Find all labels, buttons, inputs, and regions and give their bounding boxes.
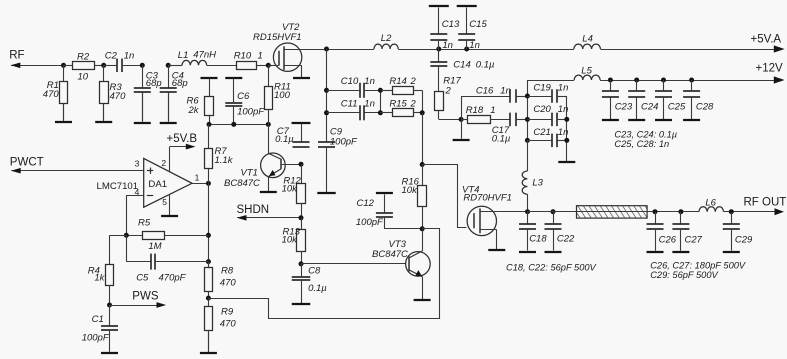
ground bbox=[655, 119, 672, 122]
label C3 bbox=[146, 71, 159, 82]
label C12 value bbox=[356, 217, 384, 228]
capacitor C23 bbox=[602, 80, 619, 119]
label R10 bbox=[234, 50, 252, 61]
label R13 bbox=[283, 226, 301, 237]
svg-text:100pF: 100pF bbox=[82, 333, 110, 344]
node SHDN node bbox=[299, 215, 304, 220]
capacitor C6 bbox=[225, 102, 242, 124]
svg-text:470: 470 bbox=[220, 319, 237, 330]
label pin 2 bbox=[161, 158, 166, 168]
label C19 value bbox=[558, 82, 569, 93]
label C3 value bbox=[146, 78, 162, 89]
label DA1 bbox=[148, 179, 167, 190]
svg-text:10: 10 bbox=[78, 72, 89, 83]
resistor R13 bbox=[297, 218, 306, 264]
capacitor C5 bbox=[126, 254, 208, 270]
label R17 bbox=[443, 75, 461, 86]
svg-text:C20: C20 bbox=[533, 104, 551, 115]
label C21 value bbox=[558, 127, 569, 138]
node VT3 collector node bbox=[420, 226, 425, 231]
svg-text:C25, C28: 1n: C25, C28: 1n bbox=[614, 139, 669, 149]
ground bbox=[453, 119, 470, 140]
label C27 bbox=[685, 235, 703, 246]
label C26 bbox=[659, 235, 677, 246]
wire C16 left bbox=[461, 96, 510, 119]
capacitor C13 bbox=[430, 34, 447, 49]
inductor L2 bbox=[374, 44, 398, 49]
svg-text:C21: C21 bbox=[533, 127, 550, 138]
svg-text:C16: C16 bbox=[476, 85, 494, 96]
label R9 value bbox=[220, 319, 237, 330]
svg-text:1n: 1n bbox=[469, 40, 480, 51]
svg-text:1: 1 bbox=[490, 105, 495, 116]
capacitor C28 bbox=[683, 80, 700, 119]
wire C10-C11 tie bbox=[380, 90, 382, 113]
svg-text:L1: L1 bbox=[178, 50, 189, 61]
label C20 bbox=[533, 104, 551, 115]
wire C12 to collector node bbox=[384, 228, 422, 230]
svg-text:L5: L5 bbox=[581, 66, 592, 77]
ground bbox=[317, 147, 335, 193]
label R15 bbox=[389, 98, 407, 109]
svg-text:R10: R10 bbox=[234, 50, 252, 61]
wire output column bbox=[208, 183, 210, 267]
label LMC7101 bbox=[97, 181, 139, 192]
svg-text:BC847C: BC847C bbox=[372, 249, 408, 260]
node C25 top node bbox=[661, 78, 666, 83]
node VT4 drain node bbox=[525, 209, 530, 214]
resistor R8 bbox=[205, 262, 213, 299]
label R2 value bbox=[78, 72, 89, 83]
svg-text:C6: C6 bbox=[237, 91, 250, 102]
wire R17 to node bbox=[439, 119, 461, 121]
svg-text:PWCT: PWCT bbox=[10, 157, 44, 169]
label C14 value bbox=[476, 60, 495, 71]
capacitor C27 bbox=[672, 212, 689, 229]
label R12 value bbox=[282, 184, 299, 195]
resistor R2 bbox=[64, 62, 104, 70]
label C12 bbox=[357, 198, 375, 209]
label VT1 bbox=[241, 168, 258, 179]
ground bbox=[293, 77, 310, 80]
svg-text:C22: C22 bbox=[557, 234, 575, 245]
node C29 node bbox=[729, 209, 734, 214]
svg-text:C28: C28 bbox=[696, 102, 714, 113]
label R11 bbox=[274, 81, 291, 92]
label VT2 bbox=[282, 22, 300, 33]
label C15 value bbox=[469, 40, 480, 51]
label C9 bbox=[330, 126, 343, 137]
capacitor C16 bbox=[510, 89, 527, 103]
svg-text:0.1µ: 0.1µ bbox=[275, 134, 294, 145]
resistor R7 bbox=[205, 124, 213, 183]
svg-text:1k: 1k bbox=[94, 273, 105, 284]
svg-text:2: 2 bbox=[161, 158, 166, 168]
svg-text:C13: C13 bbox=[442, 19, 460, 30]
wire bias line bbox=[209, 124, 268, 126]
svg-text:10k: 10k bbox=[402, 185, 419, 196]
capacitor C9 bbox=[318, 142, 335, 148]
node C10-R14 node bbox=[378, 88, 383, 93]
svg-text:RD15HVF1: RD15HVF1 bbox=[253, 32, 302, 43]
label C16 value bbox=[500, 85, 511, 96]
label +5V.B bbox=[167, 133, 198, 145]
label R8 value bbox=[220, 277, 237, 288]
label L4 bbox=[582, 33, 593, 44]
node C20 right node bbox=[564, 117, 569, 122]
label R2 bbox=[77, 51, 90, 62]
capacitor C7 bbox=[293, 142, 310, 147]
node C15 node bbox=[464, 47, 469, 52]
label R14 value bbox=[410, 76, 417, 87]
node R5 right node bbox=[206, 233, 211, 238]
label R16 value bbox=[402, 185, 419, 196]
wire RF input bbox=[11, 62, 73, 68]
label C8 value bbox=[308, 283, 327, 294]
node C22 node bbox=[551, 209, 556, 214]
svg-text:RF: RF bbox=[9, 50, 24, 62]
svg-text:C2: C2 bbox=[105, 51, 118, 62]
node RF-R1 junction bbox=[61, 63, 66, 68]
svg-text:R8: R8 bbox=[221, 265, 234, 276]
label VT2 part bbox=[253, 32, 302, 43]
svg-text:100pF: 100pF bbox=[237, 107, 265, 118]
wire C19 column right bbox=[566, 96, 568, 161]
wire +5V.B arrow bbox=[170, 144, 196, 150]
resistor R11 bbox=[265, 65, 273, 124]
label R12 bbox=[283, 175, 301, 186]
resistor R14 bbox=[380, 87, 422, 95]
label C22 bbox=[557, 234, 575, 245]
wire pin1 output bbox=[192, 183, 208, 185]
wire pin4 bbox=[127, 196, 144, 236]
label RF OUT bbox=[744, 196, 787, 208]
label R8 bbox=[221, 265, 234, 276]
resistor R5 bbox=[126, 232, 208, 240]
svg-text:1: 1 bbox=[195, 172, 200, 182]
ground bbox=[683, 119, 700, 122]
wire drain rail bbox=[302, 49, 375, 51]
inductor L1 bbox=[182, 60, 207, 65]
label VT4 part bbox=[463, 192, 512, 203]
label C13 bbox=[442, 19, 460, 30]
inductor L5 bbox=[574, 75, 600, 80]
ground bbox=[201, 78, 218, 96]
svg-text:1.1k: 1.1k bbox=[215, 155, 234, 166]
svg-text:+5V.A: +5V.A bbox=[751, 33, 782, 45]
label R4 value bbox=[94, 273, 105, 284]
label R11 value bbox=[274, 90, 291, 101]
node C26 node bbox=[653, 209, 658, 214]
transistor VT1 bbox=[261, 153, 301, 191]
capacitor C4 bbox=[160, 65, 177, 121]
label note C23 C24 bbox=[614, 129, 677, 139]
svg-text:100pF: 100pF bbox=[330, 136, 358, 147]
svg-text:C29: 56pF 500V: C29: 56pF 500V bbox=[650, 270, 718, 280]
wire pin5 stem bbox=[169, 195, 171, 216]
svg-text:DA1: DA1 bbox=[148, 179, 167, 190]
capacitor C21 bbox=[527, 134, 566, 148]
label PWS bbox=[132, 291, 159, 303]
inductor L3 bbox=[522, 171, 527, 194]
node C5 right node bbox=[206, 259, 211, 264]
label L3 bbox=[532, 178, 543, 189]
capacitor C1 bbox=[101, 305, 118, 331]
label R7 value bbox=[215, 155, 234, 166]
label R13 value bbox=[282, 235, 299, 246]
label R3 bbox=[110, 82, 123, 93]
wire PWCT bbox=[11, 168, 144, 174]
label R3 value bbox=[110, 91, 127, 102]
svg-text:10k: 10k bbox=[282, 235, 299, 246]
svg-text:C23: C23 bbox=[615, 102, 633, 113]
label pin 4 bbox=[135, 187, 140, 197]
resistor R17 bbox=[435, 67, 444, 120]
wire PWS arrow bbox=[110, 302, 167, 308]
label R18 value bbox=[490, 105, 495, 116]
ground bbox=[457, 6, 477, 34]
capacitor C15 bbox=[458, 34, 475, 49]
capacitor C3 bbox=[134, 65, 151, 121]
label C4 value bbox=[172, 78, 188, 89]
ground bbox=[628, 119, 645, 122]
label R10 value bbox=[258, 50, 263, 61]
svg-text:2: 2 bbox=[410, 98, 417, 109]
svg-text:C19: C19 bbox=[533, 82, 551, 93]
wire R14 bend bbox=[422, 90, 424, 113]
label R7 bbox=[215, 146, 228, 157]
label VT3 part bbox=[372, 249, 408, 260]
node C6 bias junction bbox=[231, 122, 236, 127]
label R4 bbox=[88, 265, 100, 276]
label C23 bbox=[615, 102, 633, 113]
resistor R18 bbox=[461, 116, 510, 124]
svg-text:C5: C5 bbox=[136, 273, 149, 284]
label C28 bbox=[696, 102, 714, 113]
resistor R15 bbox=[380, 109, 422, 117]
wire VT3 base bbox=[301, 263, 406, 265]
label C14 bbox=[453, 60, 470, 71]
resistor R9 bbox=[205, 298, 213, 352]
label L6 bbox=[705, 198, 716, 209]
svg-text:C10: C10 bbox=[341, 76, 359, 87]
svg-text:0.1µ: 0.1µ bbox=[308, 283, 327, 294]
node gate node VT2 bbox=[266, 63, 271, 68]
label C11 value bbox=[364, 98, 375, 109]
svg-text:RD70HVF1: RD70HVF1 bbox=[463, 192, 512, 203]
node C21 right node bbox=[564, 138, 569, 143]
node VT4 gate node bbox=[420, 162, 425, 167]
label C19 bbox=[533, 82, 551, 93]
label pin 1 bbox=[195, 172, 200, 182]
wire L4 to +5V.A bbox=[600, 45, 784, 52]
label note C26 C27 bbox=[650, 261, 746, 271]
op-amp DA1 bbox=[144, 158, 192, 207]
label RF bbox=[9, 50, 24, 62]
ground bbox=[602, 119, 619, 122]
svg-text:R14: R14 bbox=[389, 76, 406, 87]
label C17 bbox=[492, 125, 510, 136]
svg-text:C1: C1 bbox=[92, 314, 104, 325]
ground bbox=[414, 299, 431, 302]
label C1 value bbox=[82, 333, 110, 344]
label C25 bbox=[668, 102, 686, 113]
svg-text:C27: C27 bbox=[685, 235, 703, 246]
wire L3 top bbox=[527, 140, 529, 171]
ground bbox=[429, 6, 449, 34]
svg-text:C24: C24 bbox=[641, 102, 658, 113]
capacitor C12 bbox=[376, 212, 393, 228]
svg-text:C26, C27: 180pF 500V: C26, C27: 180pF 500V bbox=[650, 261, 746, 271]
inductor L6 bbox=[699, 207, 724, 212]
svg-text:68p: 68p bbox=[172, 78, 188, 89]
label L5 bbox=[581, 66, 592, 77]
node C2-C3 junction bbox=[140, 63, 145, 68]
ground bbox=[292, 281, 311, 305]
label +5V.A bbox=[751, 33, 782, 45]
label C24 bbox=[641, 102, 658, 113]
svg-text:2: 2 bbox=[445, 86, 452, 97]
svg-text:3: 3 bbox=[135, 158, 140, 168]
svg-text:C11: C11 bbox=[341, 98, 358, 109]
label note C18 C22 bbox=[506, 263, 597, 273]
label C17 value bbox=[492, 134, 511, 145]
svg-text:R2: R2 bbox=[77, 51, 90, 62]
label R6 bbox=[187, 95, 200, 106]
resistor R4 bbox=[106, 235, 114, 305]
capacitor C20 bbox=[527, 113, 566, 127]
capacitor C8 bbox=[292, 264, 311, 281]
wire to gate node bbox=[422, 113, 424, 165]
capacitor C24 bbox=[628, 80, 645, 119]
svg-text:L6: L6 bbox=[705, 198, 716, 209]
svg-text:C8: C8 bbox=[308, 265, 321, 276]
svg-text:100: 100 bbox=[274, 90, 291, 101]
node C13-C14 node bbox=[436, 47, 441, 52]
svg-text:0.1µ: 0.1µ bbox=[476, 60, 495, 71]
label C15 bbox=[469, 19, 487, 30]
svg-text:2k: 2k bbox=[188, 105, 200, 116]
node R6-R7 junction bbox=[207, 122, 212, 127]
label C4 bbox=[172, 71, 184, 82]
wire VT4 gate bbox=[423, 165, 467, 228]
svg-text:1: 1 bbox=[258, 50, 263, 61]
ground bbox=[545, 229, 562, 252]
label PWCT bbox=[10, 157, 44, 169]
svg-text:R5: R5 bbox=[138, 218, 151, 229]
svg-text:1M: 1M bbox=[148, 241, 161, 252]
node drain-C9 branch bbox=[324, 47, 329, 52]
svg-text:C18: C18 bbox=[529, 234, 547, 245]
label C8 bbox=[308, 265, 321, 276]
resistor R1 bbox=[60, 65, 68, 121]
node C3-C4 junction bbox=[166, 63, 171, 68]
svg-text:10k: 10k bbox=[282, 184, 299, 195]
label VT3 bbox=[389, 239, 407, 250]
capacitor C25 bbox=[655, 80, 672, 119]
svg-text:L4: L4 bbox=[582, 33, 593, 44]
label R1 value bbox=[43, 89, 60, 100]
ground bbox=[200, 331, 217, 354]
ground bbox=[488, 249, 505, 252]
label +12V bbox=[756, 62, 784, 74]
node C21 node bbox=[525, 138, 530, 143]
label C16 bbox=[476, 85, 494, 96]
resistor R6 bbox=[205, 97, 214, 125]
capacitor C2 bbox=[104, 59, 143, 73]
label C6 value bbox=[237, 107, 265, 118]
ground bbox=[519, 229, 536, 252]
wire stripline to L6 bbox=[647, 211, 699, 213]
node R5 left node bbox=[124, 233, 129, 238]
label R14 bbox=[389, 76, 406, 87]
transistor VT2 bbox=[268, 43, 302, 77]
ground bbox=[376, 193, 393, 212]
ground bbox=[101, 330, 118, 353]
label L1 bbox=[178, 50, 189, 61]
label note C25 C28 bbox=[614, 139, 669, 149]
svg-text:1n: 1n bbox=[558, 82, 569, 93]
svg-text:C25: C25 bbox=[668, 102, 686, 113]
capacitor C14 bbox=[430, 49, 447, 67]
wire feedback bbox=[209, 229, 440, 319]
node C8 node bbox=[299, 261, 304, 266]
svg-text:1n: 1n bbox=[364, 98, 375, 109]
wire pin2 stem bbox=[169, 147, 171, 172]
label C29 bbox=[735, 235, 753, 246]
label L2 bbox=[381, 33, 392, 44]
wire VT1 base bbox=[268, 124, 270, 153]
wire L5 to +12V bbox=[600, 76, 785, 83]
label C10 bbox=[341, 76, 359, 87]
node C16-C19 node bbox=[525, 94, 530, 99]
resistor R3 bbox=[100, 65, 109, 121]
wire +12V column bbox=[527, 80, 529, 140]
svg-text:1n: 1n bbox=[124, 51, 135, 62]
label C21 bbox=[533, 127, 550, 138]
svg-text:68p: 68p bbox=[146, 78, 162, 89]
svg-text:+5V.B: +5V.B bbox=[167, 133, 198, 145]
node R2-R3 junction bbox=[101, 63, 106, 68]
label R5 bbox=[138, 218, 151, 229]
node C24 top node bbox=[634, 78, 639, 83]
svg-text:R18: R18 bbox=[466, 105, 484, 116]
svg-text:C26: C26 bbox=[659, 235, 677, 246]
ground bbox=[723, 229, 740, 252]
label R1 bbox=[47, 80, 59, 91]
node R8-R9 node bbox=[206, 296, 211, 301]
wire column to L5 bbox=[527, 80, 574, 82]
label VT1 part bbox=[224, 178, 260, 189]
ground bbox=[647, 229, 664, 252]
svg-text:C12: C12 bbox=[357, 198, 375, 209]
node C17-C20 node bbox=[525, 117, 530, 122]
label pin 3 bbox=[135, 158, 140, 168]
ground bbox=[134, 92, 151, 123]
capacitor C26 bbox=[647, 212, 664, 229]
node C10 left node bbox=[324, 88, 329, 93]
svg-text:1n: 1n bbox=[500, 85, 511, 96]
wire drain to stripline bbox=[528, 211, 577, 213]
svg-text:BC847C: BC847C bbox=[224, 178, 260, 189]
svg-text:+12V: +12V bbox=[756, 62, 784, 74]
svg-text:C14: C14 bbox=[453, 60, 470, 71]
svg-text:100pF: 100pF bbox=[356, 217, 384, 228]
svg-text:LMC7101: LMC7101 bbox=[97, 181, 139, 192]
label pin 5 bbox=[162, 197, 167, 207]
svg-text:470: 470 bbox=[43, 89, 60, 100]
svg-text:47nH: 47nH bbox=[193, 50, 216, 61]
